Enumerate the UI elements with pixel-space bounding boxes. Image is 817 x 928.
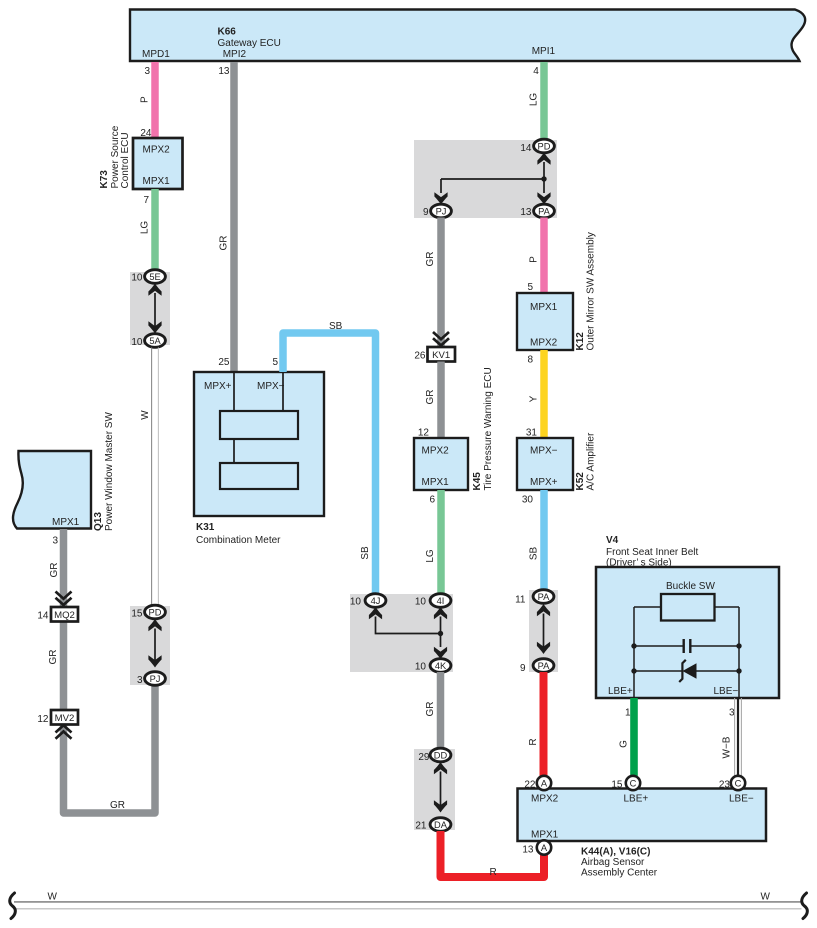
svg-text:MPX+: MPX+ [530,477,558,488]
svg-text:13: 13 [522,845,534,856]
svg-text:4: 4 [533,66,539,77]
svg-text:MPD1: MPD1 [142,49,170,60]
svg-text:LBE+: LBE+ [624,794,649,805]
svg-text:15: 15 [611,780,623,791]
svg-text:A: A [541,778,548,788]
svg-text:14: 14 [37,611,49,622]
svg-text:LG: LG [529,93,540,107]
svg-text:10: 10 [415,662,427,673]
svg-text:8: 8 [527,355,533,366]
svg-text:PA: PA [538,206,551,216]
svg-text:SB: SB [529,547,540,561]
svg-text:GR: GR [49,563,60,578]
svg-text:Power Window Master SW: Power Window Master SW [104,412,115,531]
svg-text:MPI2: MPI2 [223,49,247,60]
svg-text:10: 10 [131,337,143,348]
svg-text:PA: PA [538,661,551,671]
svg-text:GR: GR [110,800,125,811]
svg-text:3: 3 [144,66,150,77]
svg-text:DA: DA [434,820,448,830]
svg-text:3: 3 [52,536,58,547]
svg-text:21: 21 [415,821,427,832]
svg-text:R: R [490,867,497,878]
svg-text:PA: PA [538,592,551,602]
svg-text:4I: 4I [437,596,445,606]
svg-text:K45: K45 [472,472,483,491]
svg-text:MPI1: MPI1 [532,46,556,57]
svg-text:MPX+: MPX+ [204,381,232,392]
svg-text:SB: SB [360,546,371,560]
svg-text:10: 10 [350,597,362,608]
svg-text:GR: GR [425,390,436,405]
svg-text:Front Seat Inner Belt: Front Seat Inner Belt [606,547,698,558]
svg-text:K52: K52 [575,472,586,491]
svg-text:K31: K31 [196,522,215,533]
svg-text:GR: GR [48,650,59,665]
svg-text:29: 29 [418,752,430,763]
svg-text:23: 23 [719,780,731,791]
svg-text:PJ: PJ [436,206,447,216]
svg-text:GR: GR [219,236,230,251]
svg-text:5: 5 [527,282,533,293]
svg-text:KV1: KV1 [432,350,450,361]
svg-text:MPX1: MPX1 [531,830,559,841]
svg-text:Airbag Sensor: Airbag Sensor [581,857,645,868]
svg-text:1: 1 [625,708,631,719]
svg-text:4J: 4J [371,596,381,606]
svg-text:Combination Meter: Combination Meter [196,535,281,546]
svg-text:W: W [761,892,771,903]
svg-text:5E: 5E [149,272,160,282]
svg-text:LBE−: LBE− [714,686,739,697]
svg-text:GR: GR [425,252,436,267]
svg-text:V4: V4 [606,535,619,546]
svg-text:10: 10 [131,273,143,284]
svg-text:W: W [140,410,151,420]
svg-text:MPX−: MPX− [257,381,285,392]
svg-text:5A: 5A [149,336,161,346]
svg-text:MPX1: MPX1 [52,517,80,528]
svg-text:Q13: Q13 [93,512,104,531]
svg-text:W−B: W−B [722,736,733,758]
svg-text:Assembly Center: Assembly Center [581,868,658,879]
svg-text:MV2: MV2 [55,713,75,724]
svg-text:Tire Pressure Warning ECU: Tire Pressure Warning ECU [483,367,494,490]
svg-text:Outer Mirror SW Assembly: Outer Mirror SW Assembly [586,232,597,350]
svg-text:R: R [528,738,539,745]
svg-text:13: 13 [218,66,230,77]
svg-text:PD: PD [149,607,162,617]
svg-text:MPX1: MPX1 [143,176,171,187]
svg-text:10: 10 [415,597,427,608]
svg-text:A: A [541,843,548,853]
svg-text:Buckle SW: Buckle SW [666,581,715,592]
svg-text:C: C [630,778,637,788]
svg-text:PD: PD [538,141,551,151]
svg-text:4K: 4K [435,661,447,671]
svg-text:P: P [140,96,151,103]
svg-text:GR: GR [425,702,436,717]
svg-text:LBE+: LBE+ [608,686,633,697]
svg-text:DD: DD [434,750,448,760]
svg-text:G: G [619,740,630,748]
svg-text:MPX1: MPX1 [530,302,558,313]
svg-text:30: 30 [522,495,534,506]
svg-text:PJ: PJ [150,674,161,684]
svg-text:6: 6 [429,495,435,506]
svg-text:11: 11 [515,595,526,606]
svg-text:K66: K66 [218,27,237,38]
svg-text:26: 26 [414,351,426,362]
svg-text:5: 5 [272,357,278,368]
svg-text:Y: Y [529,395,540,402]
svg-text:MPX2: MPX2 [143,145,171,156]
svg-text:25: 25 [218,357,230,368]
svg-text:K12: K12 [575,332,586,351]
svg-text:Gateway ECU: Gateway ECU [218,38,281,49]
svg-text:7: 7 [143,195,149,206]
svg-text:MPX2: MPX2 [531,794,559,805]
svg-text:LG: LG [425,549,436,563]
svg-text:9: 9 [520,663,526,674]
svg-text:SB: SB [329,321,343,332]
svg-text:P: P [529,256,540,263]
svg-text:15: 15 [131,609,143,620]
svg-text:MPX1: MPX1 [422,477,450,488]
svg-text:K73: K73 [99,170,110,189]
svg-text:14: 14 [520,143,532,154]
svg-text:13: 13 [520,207,532,218]
svg-text:MPX−: MPX− [530,446,558,457]
svg-text:12: 12 [37,714,49,725]
svg-text:W: W [48,892,58,903]
svg-text:MQ2: MQ2 [54,610,75,621]
svg-text:K44(A), V16(C): K44(A), V16(C) [581,847,650,858]
svg-text:LG: LG [140,221,151,235]
svg-text:C: C [735,778,742,788]
svg-text:LBE−: LBE− [729,794,754,805]
svg-text:Control ECU: Control ECU [120,132,131,188]
svg-text:MPX2: MPX2 [422,446,450,457]
svg-text:3: 3 [137,675,143,686]
svg-text:A/C Amplifier: A/C Amplifier [586,432,597,490]
svg-text:3: 3 [729,708,735,719]
svg-text:MPX2: MPX2 [530,338,558,349]
svg-text:9: 9 [423,207,429,218]
